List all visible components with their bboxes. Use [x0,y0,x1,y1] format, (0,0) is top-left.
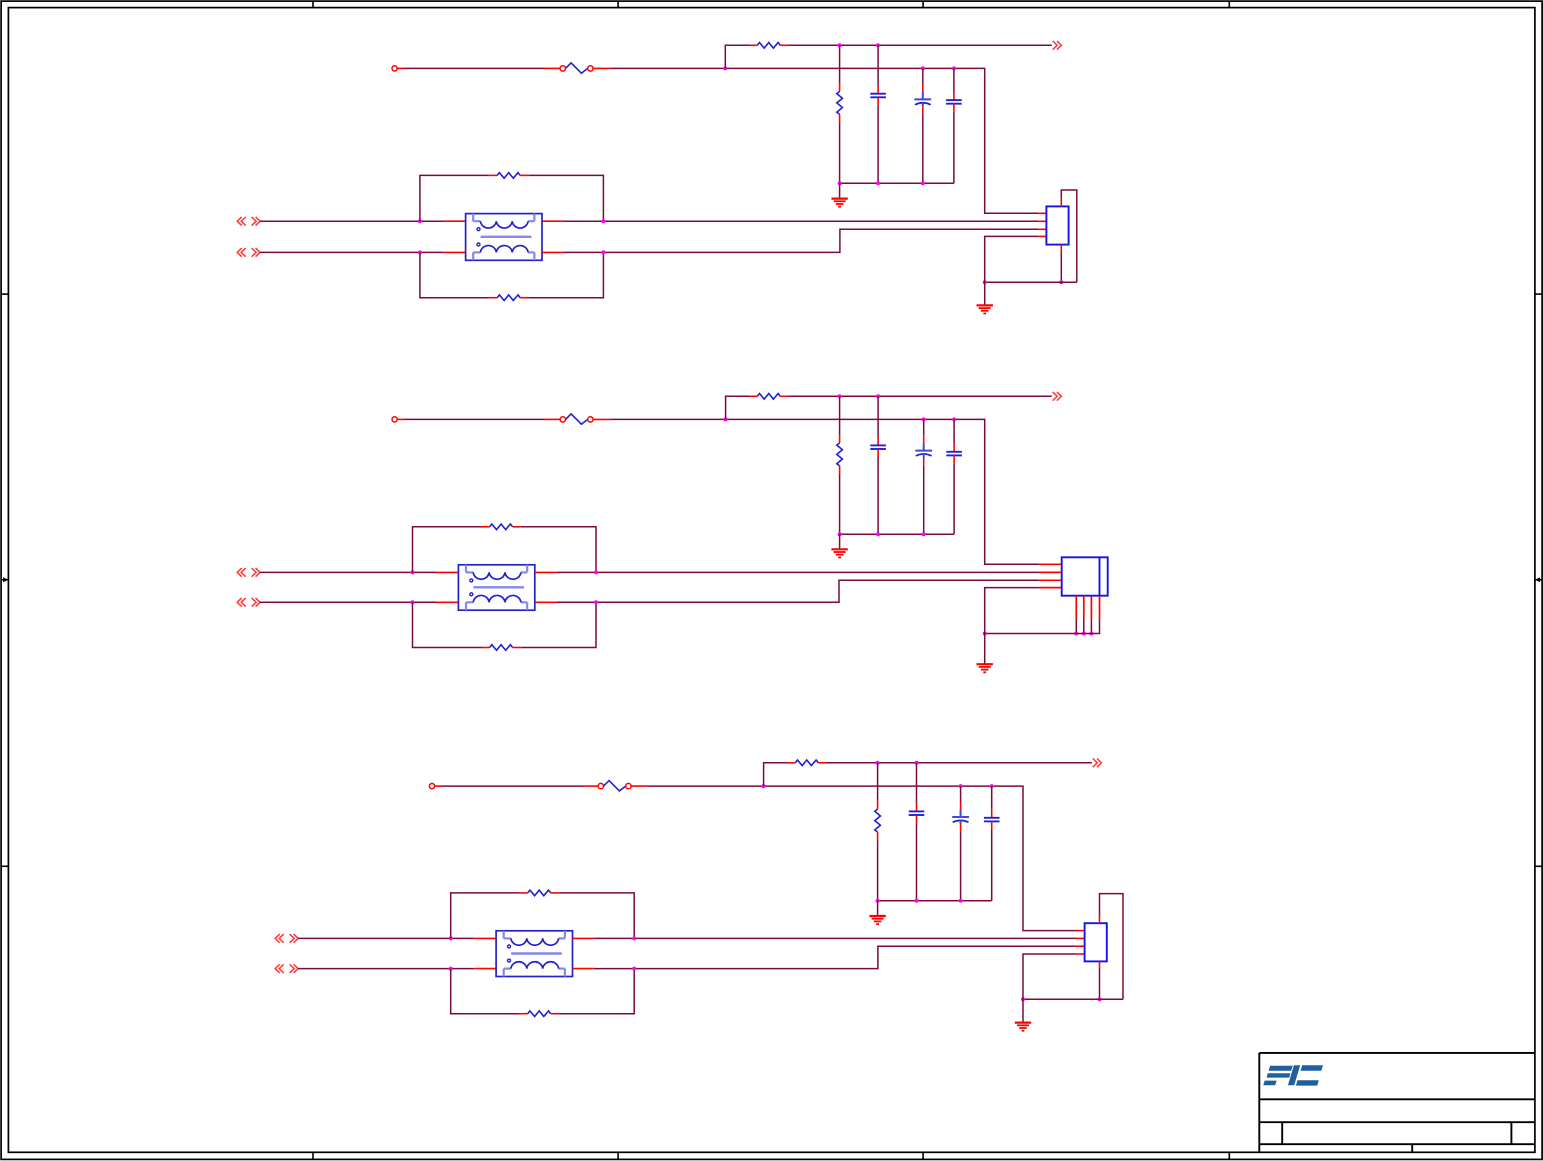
wire input to fuse F3 [442,785,583,787]
wire pin4 to bus 2 [985,588,1039,634]
wire C2b top lead [923,419,925,435]
wire C2c to ground bus [953,463,955,534]
wire CN2 bottom pin 8 [1099,618,1101,633]
wire loop bottom right 2 [521,602,596,647]
wire IN3A to choke [298,937,474,939]
wire C3c to ground bus [991,829,993,900]
pin stub R2b top [839,435,841,443]
pin stub C2a bottom [877,449,879,457]
wire node A2 up to resistor R2a [726,396,750,419]
pin stub C2b top [923,435,925,443]
resistor R1b shunt [837,91,843,114]
fuse F2 [545,414,611,424]
pin stub resistor R2a left [750,395,757,397]
wire C1b top lead [922,68,924,84]
pin stub C1c top [953,92,955,100]
choke L3 [496,931,572,977]
wire pin4 to bus 3 [1023,954,1076,999]
pin stub choke L1 pin3 [443,251,465,253]
junction choke out B3 [632,967,636,971]
pin stub resistor R3a left [788,762,795,764]
wire loop bottom right 3 [559,969,634,1014]
junction choke out B2 [594,600,598,604]
junction main line at C2b [922,417,926,421]
resistor R2a [757,394,780,400]
junction bus at R2b [838,532,842,536]
pin stub R1c right [520,174,528,176]
junction conn bus left 3 [1021,997,1025,1001]
pin 6 connector CN3 bottom [1099,961,1101,968]
junction main line at C3b [959,784,963,788]
pin stub C3b top [960,802,962,810]
pin stub choke L2 pin2 [535,571,557,573]
junction bus at C2b [922,532,926,536]
pin stub choke L2 pin1 [436,571,458,573]
pin stub R3b bottom [877,832,879,840]
junction top line at R3b [876,761,880,765]
pin stub resistor R3a right [818,762,825,764]
connector CN1 [1046,206,1068,244]
junction main line at C1c [952,66,956,70]
wire bus to ground 2b [984,634,986,665]
junction bus at R1b [838,181,842,185]
resistor R3a [795,760,818,766]
pin 5 connector CN3 top [1099,916,1101,923]
pin stub C2b bottom [923,458,925,466]
capacitor C2b polarized [915,443,932,458]
pin stub R3d left [520,1013,528,1015]
pin 1 connector CN3 [1076,930,1085,932]
title block frame [1259,1053,1535,1152]
pin 6 connector CN1 bottom [1060,245,1062,252]
junction node A1 [723,66,727,70]
border center arrow right [1535,577,1542,582]
pin stub R3c right [551,892,559,894]
pin stub resistor R1a right [780,44,787,46]
junction top line at C3a [915,761,919,765]
pin stub C3a top [916,803,918,811]
wire node A3 up to resistor R3a [764,763,788,786]
port output OUT1 [1053,41,1062,50]
pin 8 connector CN2 bottom [1099,596,1101,619]
pin stub choke L3 pin2 [573,937,595,939]
pin stub R1d right [520,297,528,299]
junction CN1 bottom [1059,280,1063,284]
resistor R2d bypass bottom [490,645,513,651]
pin stub choke L1 pin2 [542,220,564,222]
port input IN3B [275,964,298,973]
resistor R1d bypass bottom [497,295,520,301]
junction node A2 [724,417,728,421]
net block1 [237,41,1077,314]
wire IN2A to choke [260,571,436,573]
pin stub R2c left [482,526,490,528]
pin 2 connector CN1 [1038,220,1046,222]
wire node A3 to caps [764,786,1077,931]
pin stub choke L1 pin1 [443,220,465,222]
pin stub choke L3 pin4 [573,968,595,970]
resistor R2b shunt [837,443,843,466]
wire CN2 bottom pin 5 [1075,618,1077,633]
wire loop top right 2 [521,527,596,573]
wire R3b to ground bus [877,840,879,901]
wire fuse to node A3 [648,785,763,787]
port output OUT2 [1053,392,1062,401]
wire C2c top lead [953,419,955,443]
pin stub C2c top [953,444,955,452]
wire C2a to ground bus [877,457,879,534]
wire fuse to node A2 [610,418,725,420]
junction top line at C2a [876,394,880,398]
capacitor C3a [909,811,925,815]
wire C1a top lead [877,45,879,85]
FIC logo [1263,1065,1323,1085]
pin stub choke L3 pin3 [474,968,496,970]
wire bus to ground 2a [839,534,841,549]
net block3 [275,758,1123,1030]
pin 6 connector CN2 bottom [1083,596,1085,619]
junction CN3 bottom [1098,997,1102,1001]
capacitor C2c [946,452,962,456]
pin 2 connector CN3 [1076,937,1085,939]
wire ground bus RC3 [878,900,992,902]
port input IN2A [237,568,260,577]
ground GND2b [977,664,993,672]
pin 3 connector CN2 [1039,579,1062,581]
wire loop top 1 [420,175,489,221]
junction choke in A2 [411,570,415,574]
wire R2b to ground bus [839,474,841,534]
pin stub R2b bottom [839,466,841,474]
port output OUT3 [1093,758,1102,767]
ground GND3a [869,916,885,924]
choke L1 [466,214,542,261]
pin stub R2d left [482,647,490,649]
wire input to fuse F2 [405,418,546,420]
wire loop bottom 2 [413,602,482,647]
pin stub C2c bottom [953,455,955,463]
junction bus at C1a [876,181,880,185]
pin 4 connector CN1 [1038,235,1046,237]
pin stub resistor R1a left [750,44,757,46]
junction bus at C3b [959,899,963,903]
wire IN2B to choke [260,601,436,603]
pin 5 connector CN1 top [1060,199,1062,206]
pin stub C2a top [877,437,879,445]
junction conn bus left 1 [983,280,987,284]
choke L2 [458,565,534,610]
pin stub choke L1 pin4 [542,251,564,253]
junction main line at C2c [952,417,956,421]
wire loop bottom 3 [451,969,520,1014]
resistor R2c bypass top [490,524,513,530]
wire ground bus RC1 [840,182,954,184]
wire IN3B to choke [298,968,474,970]
wire loop top 2 [413,527,482,573]
junction top line at R2b [838,394,842,398]
pin 1 connector CN2 [1039,563,1062,565]
wire C3a top lead [916,763,918,804]
resistor R3c bypass top [528,890,551,896]
wire C3b top lead [960,786,962,801]
pin stub R2d right [513,647,521,649]
wire node A1 to caps [725,68,1038,213]
pin 3 connector CN3 [1076,945,1085,947]
wire choke out B2 [557,580,1039,602]
junction bus at C3a [915,899,919,903]
pin stub C1b bottom [922,106,924,114]
wire IN1B to choke [260,251,443,253]
pin stub R3d right [551,1013,559,1015]
wire choke out B1 [564,229,1038,252]
junction CN2 bus pin [1074,632,1078,636]
wire loop top 3 [451,893,520,939]
junction choke out A3 [632,936,636,940]
capacitor C1c [946,100,962,104]
resistor R1c bypass top [497,173,520,179]
wire R2b top lead [839,396,841,435]
wire loop top right 3 [559,893,634,939]
pin stub C3c bottom [991,821,993,829]
junction choke in B2 [411,600,415,604]
wire C1c to ground bus [953,112,955,184]
wire connector ground bus 1 [985,281,1077,283]
junction bus at C2a [876,532,880,536]
junction top line at R1b [838,43,842,47]
pin stub C3b bottom [960,824,962,832]
wire loop top right 1 [528,175,603,221]
pin stub R1c left [489,174,497,176]
wire bus to ground 1b [984,282,986,305]
wire C2b to ground bus [923,466,925,535]
pin 4 connector CN3 [1076,953,1085,955]
pin 7 connector CN2 bottom [1090,596,1092,619]
wire C1c top lead [953,68,955,92]
wire choke out A3 [594,937,1076,939]
wire C2a top lead [877,396,879,437]
pin stub input J3 [435,785,442,787]
junction conn bus left 2 [983,632,987,636]
wire CN3 bottom to bus [1099,968,1101,999]
wire bus to ground 3b [1022,999,1024,1022]
wire C3c top lead [991,786,993,810]
resistor R3b shunt [875,809,881,832]
wire R1b top lead [839,45,841,83]
wire pin4 to bus 1 [985,236,1038,282]
connector CN2 [1062,557,1108,595]
pin stub R2c right [513,526,521,528]
junction CN2 bus pin [1082,632,1086,636]
connector CN3 [1085,923,1107,961]
resistor R3d bypass bottom [528,1011,551,1017]
junction choke in B1 [418,250,422,254]
pin stub C1a bottom [877,97,879,105]
junction choke out B1 [601,250,605,254]
capacitor C3b polarized [952,810,969,825]
pin stub choke L2 pin3 [436,601,458,603]
ground GND1b [977,305,993,313]
wire choke out A1 [564,220,1038,222]
wire bus to ground 1a [839,183,841,198]
wire node A2 to caps [726,419,1040,564]
wire node A1 up to resistor R1a [725,45,750,68]
wire bus to ground 3a [877,901,879,916]
junction main line at C3c [990,784,994,788]
wire connector ground bus 3 [1023,998,1123,1000]
wire ground bus RC2 [840,533,955,535]
junction main line at C1b [921,66,925,70]
pin stub C3a bottom [916,815,918,823]
pin 2 connector CN2 [1039,571,1062,573]
junction bus at C1b [921,181,925,185]
wire IN1A to choke [260,220,443,222]
pin stub resistor R2a right [780,395,787,397]
pin 4 connector CN2 [1039,587,1062,589]
capacitor C1b polarized [914,92,931,107]
wire C3b to ground bus [960,832,962,901]
wire connector ground bus 2 [985,633,1100,635]
port input IN3A [275,934,298,943]
fuse F1 [545,63,611,73]
port input IN2B [237,598,260,607]
wire R3b top lead [877,763,879,801]
wire CN2 bottom pin 7 [1090,618,1092,633]
junction CN2 bus pin [1089,632,1093,636]
port input IN1A [237,217,260,226]
net block2 [237,392,1107,672]
pin stub input J1 [397,67,404,69]
border center arrow left [1,577,8,582]
capacitor C2a [870,445,886,449]
pin stub R1d left [489,297,497,299]
node J3 open input [429,784,434,789]
wire CN3 top wrap [1100,894,1124,1000]
wire resistor R3a to output port [826,762,1092,764]
pin stub R3b top [877,801,879,809]
wire R1b to ground bus [839,122,841,183]
resistor R1a [757,43,780,49]
wire loop bottom right 1 [528,252,603,297]
wire choke out A2 [557,571,1039,573]
pin stub R3c left [520,892,528,894]
wire loop bottom 1 [420,252,489,297]
capacitor C3c [984,818,1000,822]
pin stub C1a top [877,86,879,94]
ground GND3b [1015,1023,1031,1031]
wire CN2 bottom pin 6 [1083,618,1085,633]
wire choke out B3 [594,946,1076,968]
port input IN1B [237,248,260,257]
junction choke out A1 [601,219,605,223]
junction choke in A1 [418,219,422,223]
pin stub C3c top [991,810,993,818]
wire CN1 top wrap [1061,190,1077,282]
junction choke in A3 [449,936,453,940]
wire C3a to ground bus [916,823,918,901]
wire C1b to ground bus [922,114,924,183]
pin stub input J2 [397,418,404,420]
node J2 open input [392,417,397,422]
pin stub choke L2 pin4 [535,601,557,603]
capacitor C1a [870,94,886,98]
junction node A3 [762,784,766,788]
pin stub R1b bottom [839,114,841,122]
junction choke out A2 [594,570,598,574]
wire input to fuse F1 [405,67,546,69]
pin 1 connector CN1 [1038,212,1046,214]
pin 5 connector CN2 bottom [1075,596,1077,619]
fuse F3 [583,781,649,791]
junction choke in B3 [449,967,453,971]
ground GND1a [831,199,847,207]
ground GND2a [831,549,847,557]
wire C1a to ground bus [877,105,879,183]
node J1 open input [392,66,397,71]
pin stub C1c bottom [953,104,955,112]
pin stub R1b top [839,83,841,91]
junction bus at R3b [876,899,880,903]
wire resistor R1a to output port [788,44,1052,46]
wire resistor R2a to output port [788,395,1052,397]
wire CN1 bottom to bus [1060,251,1062,282]
wire fuse to node A1 [610,67,725,69]
pin stub C1b top [922,84,924,92]
junction top line at C1a [876,43,880,47]
pin stub choke L3 pin1 [474,937,496,939]
pin 3 connector CN1 [1038,228,1046,230]
